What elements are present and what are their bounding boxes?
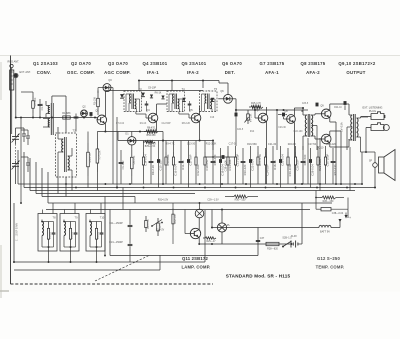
svg-text:R28—820: R28—820 xyxy=(267,248,278,251)
svg-text:C24-50P: C24-50P xyxy=(265,164,269,175)
AF bus y110 xyxy=(236,109,308,111)
wire x330 col xyxy=(329,184,331,198)
svg-text:AGC COMP.: AGC COMP. xyxy=(104,70,131,75)
wire T3 top xyxy=(132,90,134,93)
wire Q6 junction xyxy=(235,109,237,146)
bus B4 y193.5 xyxy=(36,162,195,194)
stage label G7 2SB175 xyxy=(260,61,285,75)
osc coil wires xyxy=(58,133,72,177)
wire x123 mid xyxy=(122,188,124,210)
svg-text:C9-10P: C9-10P xyxy=(148,87,157,90)
svg-text:R6-1K: R6-1K xyxy=(155,92,162,95)
trimmer C2A xyxy=(26,130,30,145)
wire x320 col xyxy=(325,228,327,233)
svg-text:C26-25P: C26-25P xyxy=(295,159,299,170)
wire T6 centertap xyxy=(315,126,317,151)
component C24-50P xyxy=(264,148,269,184)
svg-text:C22-0.04: C22-0.04 xyxy=(250,159,254,171)
oscillator coil primary xyxy=(62,139,64,152)
svg-text:R22-330: R22-330 xyxy=(333,164,337,175)
svg-text:R31=1.5V: R31=1.5V xyxy=(158,200,169,202)
svg-text:C . . 1500P 50WV: C . . 1500P 50WV xyxy=(17,222,19,241)
component C28-0.04 xyxy=(309,148,314,188)
wire x203 drop xyxy=(202,81,204,89)
driver transformer T6 xyxy=(303,114,315,137)
resistor R3 vertical xyxy=(94,93,100,112)
svg-text:IFA-1: IFA-1 xyxy=(147,70,159,75)
bus y131 dots xyxy=(104,130,141,132)
svg-text:R26—150: R26—150 xyxy=(323,200,334,203)
svg-text:Q11 2SB172: Q11 2SB172 xyxy=(182,256,208,261)
AGC bus dots xyxy=(138,79,204,81)
wire gang bottom xyxy=(15,172,17,184)
IF top bus xyxy=(105,90,203,92)
coil box wires down xyxy=(48,251,98,263)
volume control VR xyxy=(245,110,253,124)
wire Q10 emitter xyxy=(330,131,341,184)
component C15-10P xyxy=(157,141,162,188)
svg-text:C30-100P: C30-100P xyxy=(325,154,329,167)
wire Q7 base xyxy=(248,110,258,128)
wire R3 xyxy=(97,91,99,116)
fence horizontal value labels xyxy=(148,143,337,147)
diode Q2 OA70 xyxy=(81,106,88,118)
svg-text:C25-0.04: C25-0.04 xyxy=(280,154,284,166)
component R16-220 xyxy=(241,148,247,184)
svg-text:SP: SP xyxy=(369,160,373,163)
svg-text:Q8 2SB175: Q8 2SB175 xyxy=(301,61,326,66)
ferrite rod core xyxy=(51,103,53,135)
stage label Q8 2SB175 xyxy=(301,61,326,75)
wire x308b col xyxy=(307,138,309,184)
svg-text:C28-0.04: C28-0.04 xyxy=(310,164,314,176)
transistor Q1 xyxy=(95,110,106,125)
wire T7 sec bottom xyxy=(360,137,362,152)
capacitor C4 vertical xyxy=(33,99,44,118)
wire Q9 emitter xyxy=(330,117,336,184)
wire Q8 base xyxy=(284,117,288,119)
wire x105 mid xyxy=(104,197,106,257)
page top edge line xyxy=(0,54,400,56)
wire Q8 collector xyxy=(294,108,303,116)
svg-text:Q10: Q10 xyxy=(319,147,324,150)
svg-text:B54-150: B54-150 xyxy=(146,134,156,137)
svg-text:C13—1500P: C13—1500P xyxy=(109,241,123,244)
component R14-10K xyxy=(227,146,232,184)
svg-text:C7-0.04: C7-0.04 xyxy=(116,123,125,125)
component R20-560 xyxy=(301,146,307,184)
component R22-330 xyxy=(331,148,337,184)
stage label Q1 2SA103 xyxy=(33,61,58,75)
trimmer C2B xyxy=(26,157,30,172)
wire x21 long xyxy=(20,117,22,204)
wire Q2b top xyxy=(131,132,133,137)
electrolytic C23 xyxy=(278,113,287,117)
wire Q7 collector xyxy=(266,107,268,114)
svg-text:+: + xyxy=(349,216,351,220)
svg-text:C11—1500P: C11—1500P xyxy=(109,222,123,225)
capacitor C8 vertical xyxy=(119,150,125,184)
svg-text:R23-3.3K: R23-3.3K xyxy=(148,219,150,229)
label ext listening plug xyxy=(363,105,383,113)
svg-text:R16-56K: R16-56K xyxy=(247,143,257,146)
cap trimmer T3 xyxy=(145,101,149,112)
svg-text:C27-50: C27-50 xyxy=(308,143,317,146)
svg-text:R18-1K: R18-1K xyxy=(273,160,277,170)
component R18-1K xyxy=(271,146,277,184)
wire T3 sec to Q4 base xyxy=(136,112,148,119)
wire Q10 collector xyxy=(330,139,349,147)
AGC bus xyxy=(139,81,228,95)
wire rod join xyxy=(12,91,33,93)
transistor Q7 xyxy=(256,109,267,123)
capacitor C13-1500P xyxy=(109,238,132,251)
resistor zigzag R5 xyxy=(144,127,158,138)
wire T7 centertap xyxy=(346,127,348,150)
svg-text:C16: C16 xyxy=(210,117,215,119)
svg-text:VR-10K: VR-10K xyxy=(250,113,253,122)
oscillator coil T2 can xyxy=(56,129,77,178)
wire ext-ant down xyxy=(15,78,17,118)
svg-text:R11-1K: R11-1K xyxy=(181,160,185,169)
bus y140 dots xyxy=(162,139,214,141)
svg-text:LAMP. COMP.: LAMP. COMP. xyxy=(181,265,210,270)
wire Q1 emitter down xyxy=(104,123,106,131)
component C14-0.04 xyxy=(142,141,147,185)
wire Q8 emitter xyxy=(293,122,295,184)
battery bus y227 xyxy=(212,210,319,228)
schematic left border xyxy=(10,56,12,285)
svg-text:R17-4.7K: R17-4.7K xyxy=(258,154,262,166)
switch S2 xyxy=(282,237,293,248)
capacitor C5 xyxy=(74,114,79,123)
resistor R30-150 xyxy=(225,195,258,202)
capacitor C11-1500P xyxy=(109,220,132,232)
svg-text:Q4 2SB101: Q4 2SB101 xyxy=(143,61,168,66)
wire x345 down xyxy=(344,191,348,210)
svg-text:C-0.01: C-0.01 xyxy=(72,231,74,239)
coil box T9 xyxy=(60,214,79,252)
wire Q3 left xyxy=(98,88,103,93)
svg-text:C18–0.04: C18–0.04 xyxy=(225,160,228,171)
component R9-2.2K xyxy=(149,141,155,185)
resistor R6 vertical xyxy=(131,145,136,184)
svg-text:Q1 2SA103: Q1 2SA103 xyxy=(33,61,58,66)
svg-text:T10: T10 xyxy=(100,216,105,220)
svg-text:R20-1K: R20-1K xyxy=(288,143,297,146)
bus B1 y184 xyxy=(18,150,362,184)
antenna coil L1 xyxy=(46,101,50,118)
schematic bottom dashed border xyxy=(11,283,214,285)
svg-text:R12-3.3K: R12-3.3K xyxy=(206,143,217,146)
wire Q11 collector xyxy=(198,218,200,230)
resistor R28-820 xyxy=(258,242,279,250)
junction dots front bus xyxy=(15,116,96,118)
svg-text:Q9,10 2SB172×2: Q9,10 2SB172×2 xyxy=(338,61,375,66)
bus B2 y187.5 xyxy=(24,152,375,188)
svg-text:R25—47: R25—47 xyxy=(206,241,216,243)
svg-text:R9-2.2K: R9-2.2K xyxy=(151,165,155,175)
svg-text:C14-0.04: C14-0.04 xyxy=(143,154,147,166)
svg-text:R7–10K: R7–10K xyxy=(98,150,101,159)
wire Q6 out xyxy=(232,99,236,110)
svg-text:C18-25P: C18-25P xyxy=(205,159,209,170)
svg-text:C21-100P: C21-100P xyxy=(235,154,239,167)
wire thermistor right xyxy=(331,209,348,227)
cap C at 151 xyxy=(150,95,153,98)
antenna coil L2 xyxy=(43,119,50,128)
trimmer C2 xyxy=(22,134,26,142)
svg-text:AFA-2: AFA-2 xyxy=(306,70,320,75)
label C39 xyxy=(207,200,219,202)
component C21-100P xyxy=(234,146,239,184)
battery terminal arrows xyxy=(339,213,352,223)
resistor R2 vertical xyxy=(21,92,37,118)
wire x213 drop xyxy=(212,141,214,151)
svg-text:Q3 OA70: Q3 OA70 xyxy=(108,61,128,66)
bus y262 xyxy=(14,203,205,262)
oscillator coil core xyxy=(65,137,67,172)
svg-text:DET.: DET. xyxy=(225,70,235,75)
resistor R26-150 xyxy=(316,196,344,203)
component R12-20K xyxy=(195,141,200,185)
svg-text:PLUG: PLUG xyxy=(369,109,376,113)
bus B6 y203 xyxy=(48,172,332,203)
wire x163 drop xyxy=(162,132,164,185)
svg-text:C8–0.02: C8–0.02 xyxy=(122,160,125,170)
wire lamp top xyxy=(221,208,223,222)
svg-text:AFA-1: AFA-1 xyxy=(265,70,279,75)
svg-text:R20-560: R20-560 xyxy=(303,154,307,165)
resistor R1 xyxy=(62,112,71,119)
svg-text:C13-30: C13-30 xyxy=(187,143,196,146)
verticals to battery row xyxy=(246,191,302,228)
wire speaker bottom xyxy=(374,167,376,188)
wire Q1 base xyxy=(96,118,98,120)
svg-text:ROD ANT.: ROD ANT. xyxy=(8,61,20,64)
IF transformer T3 xyxy=(124,87,142,112)
diode Q2b circle xyxy=(125,133,136,146)
svg-text:R16-220: R16-220 xyxy=(243,164,247,175)
wire T7 sec top xyxy=(361,117,369,118)
wire battery drops xyxy=(258,242,296,244)
wire x316 down xyxy=(315,191,317,210)
stage label Q5 2SA101 xyxy=(182,61,207,75)
speaker SP xyxy=(369,150,395,181)
svg-text:C39—1.5V: C39—1.5V xyxy=(207,200,219,202)
svg-text:C20-5: C20-5 xyxy=(237,129,244,131)
svg-text:C38—0.04: C38—0.04 xyxy=(332,212,344,215)
svg-text:2V–0.5A: 2V–0.5A xyxy=(341,122,344,132)
stage label Q2 OA70 xyxy=(67,61,95,75)
bus y131 wire xyxy=(97,131,163,133)
title STANDARD Mod. SR-H115 xyxy=(226,274,291,279)
component R17-4.7K xyxy=(257,146,262,184)
svg-text:C23-30: C23-30 xyxy=(278,127,286,129)
bus y140 wire xyxy=(118,140,213,142)
wire T6 sec to Q10 xyxy=(315,136,322,139)
wire speaker top xyxy=(361,152,376,163)
wire trimmer links xyxy=(21,130,28,157)
transistor Q5 xyxy=(189,109,200,123)
diode at 212 xyxy=(211,98,215,102)
page left scan smudge xyxy=(0,62,2,298)
svg-text:R32–100: R32–100 xyxy=(175,214,177,224)
svg-text:R14: R14 xyxy=(250,131,255,133)
capacitor C18 blob xyxy=(222,155,228,171)
oscillator coil secondary xyxy=(68,156,70,170)
wire T5 to Q6 xyxy=(217,95,224,99)
component R10-68K xyxy=(165,141,170,185)
electrolytic C20 xyxy=(235,113,238,117)
diode Q3 AGC xyxy=(103,79,112,92)
svg-text:C-0.01: C-0.01 xyxy=(50,231,52,239)
svg-text:TEMP. COMP.: TEMP. COMP. xyxy=(316,265,345,270)
thermistor coil xyxy=(319,225,331,233)
switch row bus xyxy=(199,226,291,245)
component C30-100P xyxy=(324,146,329,184)
component C22-0.04 xyxy=(249,146,254,188)
wire rod-ant down xyxy=(11,90,13,134)
svg-text:Q2 OA70: Q2 OA70 xyxy=(71,61,91,66)
component R13-470 xyxy=(211,141,217,185)
svg-text:S1A–2V: S1A–2V xyxy=(156,229,165,232)
wire Q1 collector up xyxy=(104,91,106,117)
wire x118 seg xyxy=(117,132,119,141)
wire Q5 collector xyxy=(199,106,201,114)
component R21-2.2K xyxy=(317,146,322,184)
svg-text:C-0.01: C-0.01 xyxy=(98,231,100,239)
svg-text:R6–15K: R6–15K xyxy=(133,155,136,164)
wire y255 segment xyxy=(110,210,258,256)
misc small value labels xyxy=(116,103,342,133)
component R11-1K xyxy=(179,141,185,185)
wire Q4 collector xyxy=(157,104,167,114)
diode at 184 xyxy=(182,98,186,102)
svg-text:R1-68K: R1-68K xyxy=(62,112,71,115)
svg-text:IFA-2: IFA-2 xyxy=(187,70,199,75)
svg-text:T2: T2 xyxy=(72,129,76,133)
wire Q7 emitter xyxy=(266,122,268,184)
component C19-0.04 xyxy=(219,148,224,188)
svg-text:R23-220: R23-220 xyxy=(326,143,336,146)
transistor Q10 xyxy=(319,134,331,149)
electrolytic C29 xyxy=(344,101,347,110)
resistor R5 vertical xyxy=(87,132,92,188)
svg-text:R15-4.7K: R15-4.7K xyxy=(251,102,262,105)
diode D at T3 right xyxy=(141,93,145,97)
svg-text:OSC. COMP.: OSC. COMP. xyxy=(67,70,95,75)
component C25-0.04 xyxy=(279,146,284,188)
jack J1 xyxy=(361,112,385,120)
dot R2 bus xyxy=(32,117,41,119)
label C-10P xyxy=(148,87,157,90)
left margin rotated note xyxy=(17,222,19,241)
battery B1 xyxy=(291,203,302,248)
wire osc can top xyxy=(58,118,66,134)
pilot lamp PL xyxy=(217,223,230,232)
detector transformer T5 xyxy=(200,87,218,112)
wire osc can bottom drops xyxy=(58,177,72,197)
svg-text:B7R+1.5K: B7R+1.5K xyxy=(145,146,156,148)
rod antenna terminal xyxy=(8,61,20,68)
label 2V-0.5A xyxy=(341,122,344,132)
switch S1 diag xyxy=(151,200,169,237)
svg-text:C25-5: C25-5 xyxy=(302,103,309,105)
component C18-25P xyxy=(204,141,209,185)
wire C1A top xyxy=(16,128,25,134)
IF transformer T4 xyxy=(167,87,185,112)
resistor R25 xyxy=(203,237,216,243)
page bottom-left scan mark xyxy=(0,290,9,292)
stage label Q9,10 2SB172&#215;2 xyxy=(338,61,375,75)
svg-text:B–9V: B–9V xyxy=(291,236,297,238)
coil box T8 xyxy=(38,214,57,252)
detector diode Q6 xyxy=(220,90,232,103)
svg-text:R3-10K: R3-10K xyxy=(94,97,97,106)
label R-1K xyxy=(155,92,162,95)
svg-text:C10-1K: C10-1K xyxy=(148,143,157,146)
svg-text:R19-100K: R19-100K xyxy=(288,164,292,177)
wire Q11 base xyxy=(185,210,190,234)
meter circle M xyxy=(195,202,204,218)
svg-text:C37: C37 xyxy=(260,237,265,240)
wire x172 drop xyxy=(171,81,173,92)
resistor R7 vertical xyxy=(96,132,101,191)
front-end bus wire xyxy=(16,117,98,119)
wire x135 mid xyxy=(134,197,136,204)
svg-text:R22-100: R22-100 xyxy=(294,131,304,133)
svg-text:OUTPUT: OUTPUT xyxy=(346,70,365,75)
junction dots B2 xyxy=(75,187,348,189)
stage label Q3 OA70 xyxy=(104,61,131,75)
wire T6 primary top xyxy=(302,107,304,115)
wire x117 long xyxy=(116,117,118,188)
gang link dashed xyxy=(15,144,17,161)
wire Q3 right xyxy=(111,88,113,111)
svg-text:C21-30: C21-30 xyxy=(268,143,277,146)
svg-text:C12-50P: C12-50P xyxy=(161,123,171,125)
svg-text:C4–30: C4–30 xyxy=(42,103,44,110)
svg-text:R8-470: R8-470 xyxy=(147,127,156,130)
dots AF bus xyxy=(254,109,285,111)
wire x362 col xyxy=(361,152,363,185)
wire x113 long xyxy=(112,111,114,184)
svg-text:CONV.: CONV. xyxy=(37,70,52,75)
rod antenna body xyxy=(10,68,14,90)
transistor Q9 xyxy=(320,105,331,119)
stage label Q4 2SB101 xyxy=(143,61,168,75)
svg-text:Q5 2SA101: Q5 2SA101 xyxy=(182,61,207,66)
svg-text:R24-1K: R24-1K xyxy=(334,107,342,109)
svg-text:R14-10K: R14-10K xyxy=(228,159,232,170)
electrolytic C27 xyxy=(316,103,319,110)
svg-text:G7 2SB175: G7 2SB175 xyxy=(260,61,285,66)
svg-text:R5–4.7K: R5–4.7K xyxy=(89,153,92,163)
variable capacitor C1B xyxy=(12,161,20,173)
wire T6 sec to Q9 xyxy=(315,114,322,115)
wire Q5 emitter xyxy=(199,122,201,141)
svg-text:G12 S–250: G12 S–250 xyxy=(317,256,340,261)
junction dots B1 xyxy=(65,183,356,185)
wire y110 verticals xyxy=(277,110,302,150)
variable capacitor C1A xyxy=(12,132,20,144)
component R19-100K xyxy=(287,148,292,184)
component small R at 146 xyxy=(145,216,150,232)
capacitor C37 xyxy=(256,235,265,242)
wire Q11 emitter xyxy=(198,237,200,245)
wire C5 drop xyxy=(75,122,77,132)
